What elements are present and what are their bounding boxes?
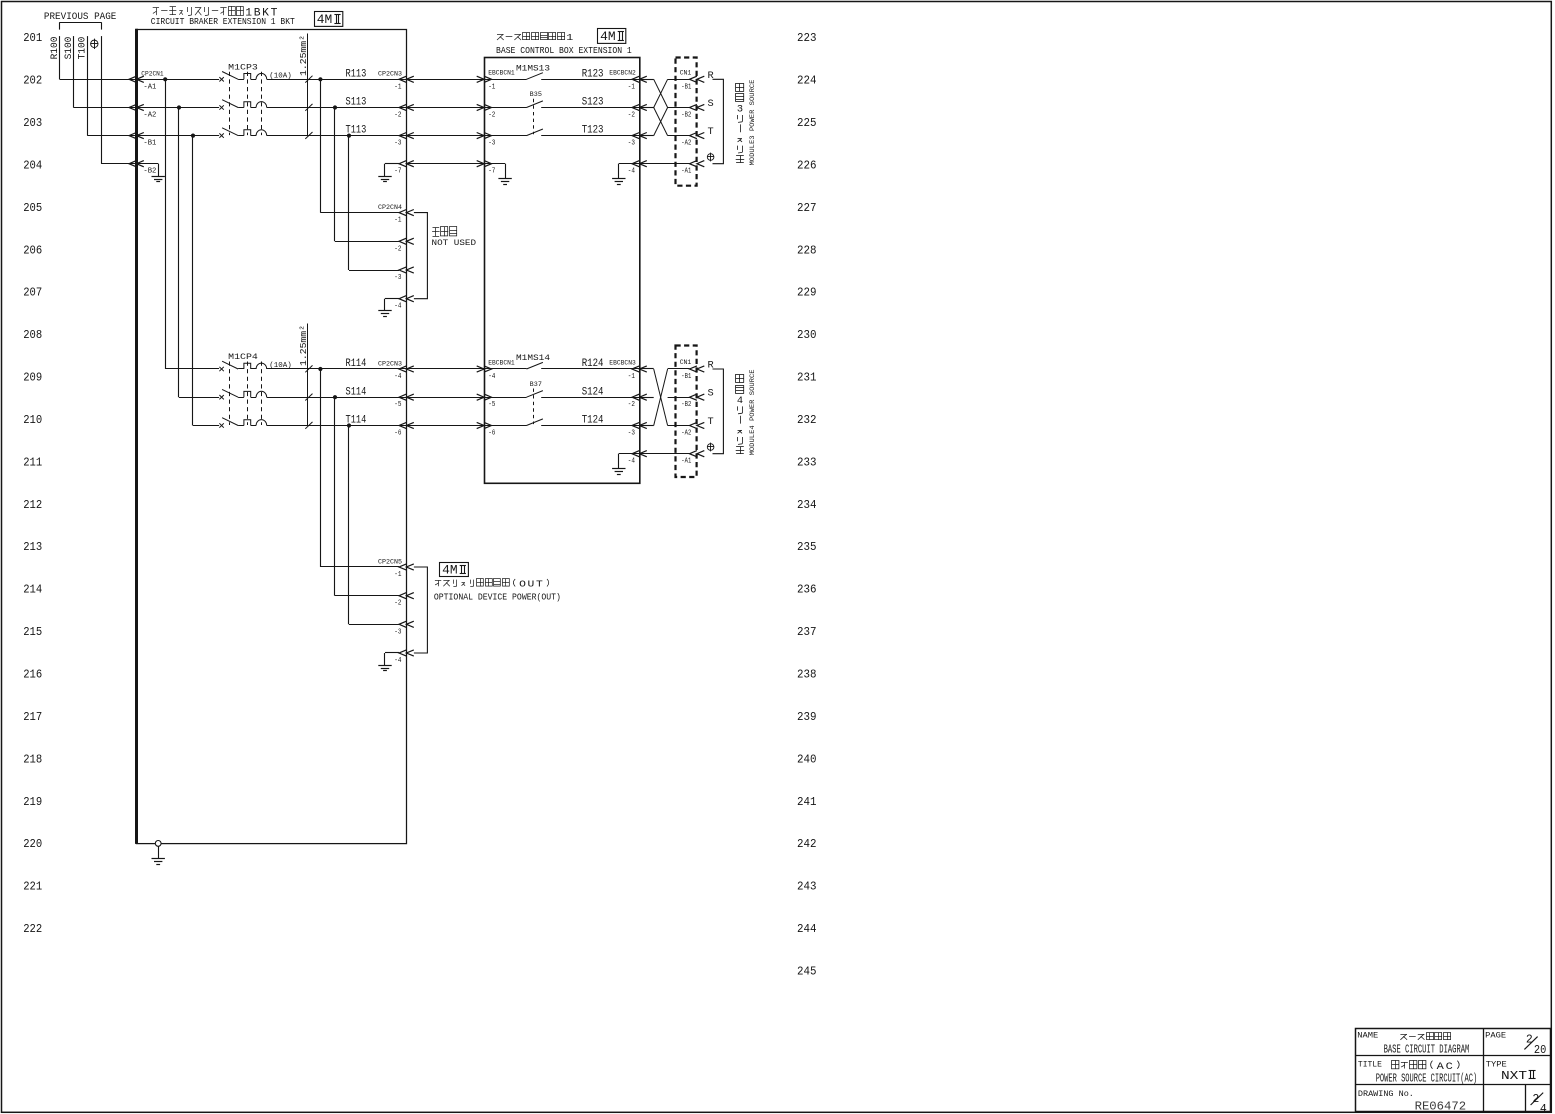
svg-text:MODULE3 POWER SOURCE: MODULE3 POWER SOURCE bbox=[749, 80, 757, 166]
svg-text:B37: B37 bbox=[530, 381, 542, 388]
svg-text:215: 215 bbox=[23, 626, 42, 639]
svg-text:-A2: -A2 bbox=[681, 430, 691, 438]
svg-text:S123: S123 bbox=[582, 97, 604, 109]
svg-text:S124: S124 bbox=[582, 386, 604, 398]
svg-text:NAME: NAME bbox=[1357, 1030, 1378, 1040]
svg-text:212: 212 bbox=[23, 499, 42, 512]
svg-text:227: 227 bbox=[797, 202, 817, 215]
svg-text:-2: -2 bbox=[628, 401, 635, 409]
svg-text:245: 245 bbox=[797, 965, 817, 978]
svg-text:202: 202 bbox=[23, 75, 42, 88]
svg-text:-3: -3 bbox=[394, 140, 401, 148]
svg-text:R114: R114 bbox=[346, 358, 367, 370]
svg-text:T: T bbox=[708, 127, 714, 138]
svg-text:1.25mm²: 1.25mm² bbox=[299, 325, 309, 366]
svg-text:-3: -3 bbox=[628, 430, 635, 438]
svg-text:M1MS13: M1MS13 bbox=[516, 63, 550, 73]
svg-text:4: 4 bbox=[1540, 1103, 1547, 1114]
svg-text:4: 4 bbox=[737, 395, 743, 407]
svg-text:S113: S113 bbox=[346, 97, 367, 109]
svg-text:-B1: -B1 bbox=[681, 373, 691, 381]
svg-text:T124: T124 bbox=[582, 415, 604, 427]
svg-text:R100: R100 bbox=[49, 37, 61, 60]
svg-text:-2: -2 bbox=[394, 600, 401, 608]
svg-text:-4: -4 bbox=[394, 373, 402, 381]
svg-text:-2: -2 bbox=[628, 112, 635, 120]
svg-text:213: 213 bbox=[23, 541, 42, 554]
svg-text:-6: -6 bbox=[394, 430, 401, 438]
svg-text:EBCBCN1: EBCBCN1 bbox=[488, 359, 515, 366]
svg-text:208: 208 bbox=[23, 329, 42, 342]
svg-text:S: S bbox=[708, 99, 714, 110]
svg-text:3: 3 bbox=[737, 104, 743, 116]
svg-text:-B2: -B2 bbox=[143, 168, 156, 176]
svg-text:TYPE: TYPE bbox=[1486, 1059, 1507, 1069]
svg-text:233: 233 bbox=[797, 456, 817, 469]
svg-text:M1CP3: M1CP3 bbox=[228, 62, 258, 72]
svg-text:226: 226 bbox=[797, 160, 817, 173]
svg-text:-A1: -A1 bbox=[681, 168, 691, 176]
svg-text:B35: B35 bbox=[530, 91, 542, 98]
svg-text:236: 236 bbox=[797, 584, 817, 597]
svg-text:-B1: -B1 bbox=[681, 83, 691, 91]
svg-text:234: 234 bbox=[797, 499, 817, 512]
svg-text:-A2: -A2 bbox=[681, 140, 691, 148]
svg-text:-7: -7 bbox=[488, 168, 495, 176]
svg-text:-1: -1 bbox=[394, 83, 402, 91]
svg-text:CIRCUIT BRAKER EXTENSION 1 BKT: CIRCUIT BRAKER EXTENSION 1 BKT bbox=[151, 16, 295, 27]
svg-text:-B2: -B2 bbox=[681, 401, 691, 409]
svg-text:210: 210 bbox=[23, 414, 42, 427]
svg-text:-4: -4 bbox=[394, 303, 402, 311]
svg-text:-1: -1 bbox=[394, 571, 402, 579]
svg-text:231: 231 bbox=[797, 372, 817, 385]
svg-text:-A1: -A1 bbox=[143, 83, 156, 91]
svg-text:S: S bbox=[708, 389, 714, 400]
svg-text:243: 243 bbox=[797, 881, 817, 894]
svg-text:-3: -3 bbox=[394, 274, 401, 282]
svg-text:219: 219 bbox=[23, 796, 42, 809]
svg-text:MODULE4 POWER SOURCE: MODULE4 POWER SOURCE bbox=[749, 369, 757, 455]
svg-text:CN1: CN1 bbox=[680, 70, 692, 77]
svg-text:-B1: -B1 bbox=[143, 140, 156, 148]
svg-text:-2: -2 bbox=[394, 112, 401, 120]
svg-text:225: 225 bbox=[797, 117, 817, 130]
svg-text:201: 201 bbox=[23, 32, 42, 45]
svg-text:238: 238 bbox=[797, 669, 817, 682]
svg-text:204: 204 bbox=[23, 160, 42, 173]
svg-text:EBCBCN1: EBCBCN1 bbox=[488, 70, 515, 77]
svg-text:CP2CN3: CP2CN3 bbox=[378, 360, 402, 367]
svg-text:PREVIOUS PAGE: PREVIOUS PAGE bbox=[44, 11, 117, 23]
svg-text:222: 222 bbox=[23, 923, 42, 936]
svg-text:T: T bbox=[708, 417, 714, 428]
svg-text:R124: R124 bbox=[582, 358, 604, 370]
svg-text:232: 232 bbox=[797, 414, 817, 427]
svg-text:-1: -1 bbox=[628, 83, 636, 91]
svg-text:CP2CN3: CP2CN3 bbox=[378, 71, 402, 78]
svg-text:211: 211 bbox=[23, 456, 42, 469]
svg-text:228: 228 bbox=[797, 244, 817, 257]
svg-text:-A1: -A1 bbox=[681, 458, 691, 466]
svg-text:-2: -2 bbox=[488, 112, 495, 120]
svg-text:-3: -3 bbox=[394, 628, 401, 636]
svg-text:-7: -7 bbox=[394, 168, 401, 176]
svg-text:205: 205 bbox=[23, 202, 42, 215]
svg-text:CP2CN4: CP2CN4 bbox=[378, 204, 402, 211]
svg-text:RE06472: RE06472 bbox=[1415, 1100, 1467, 1114]
svg-text:R: R bbox=[708, 71, 714, 82]
svg-text:PAGE: PAGE bbox=[1485, 1030, 1506, 1040]
svg-text:216: 216 bbox=[23, 669, 42, 682]
svg-text:NOT USED: NOT USED bbox=[432, 239, 477, 248]
svg-text:OPTIONAL DEVICE POWER(OUT): OPTIONAL DEVICE POWER(OUT) bbox=[434, 592, 561, 603]
svg-text:1.25mm²: 1.25mm² bbox=[299, 35, 309, 76]
svg-text:209: 209 bbox=[23, 372, 42, 385]
svg-text:NXT: NXT bbox=[1501, 1069, 1527, 1083]
svg-text:-6: -6 bbox=[488, 430, 495, 438]
svg-text:-1: -1 bbox=[488, 83, 496, 91]
svg-text:O: O bbox=[519, 579, 526, 590]
svg-text:4M: 4M bbox=[317, 13, 333, 27]
svg-text:CN1: CN1 bbox=[680, 359, 692, 366]
svg-text:S100: S100 bbox=[63, 37, 75, 60]
svg-text:241: 241 bbox=[797, 796, 817, 809]
svg-text:244: 244 bbox=[797, 923, 817, 936]
svg-text:207: 207 bbox=[23, 287, 42, 300]
svg-text:T: T bbox=[536, 579, 543, 590]
svg-text:206: 206 bbox=[23, 244, 42, 257]
svg-text:1: 1 bbox=[566, 33, 573, 43]
svg-text:-4: -4 bbox=[488, 373, 496, 381]
svg-text:CP2CN5: CP2CN5 bbox=[378, 558, 402, 565]
svg-text:-3: -3 bbox=[628, 140, 635, 148]
svg-text:BASE CIRCUIT DIAGRAM: BASE CIRCUIT DIAGRAM bbox=[1384, 1042, 1470, 1056]
svg-text:EBCBCN3: EBCBCN3 bbox=[609, 359, 636, 366]
svg-text:235: 235 bbox=[797, 541, 817, 554]
svg-text:20: 20 bbox=[1534, 1044, 1546, 1057]
svg-text:EBCBCN2: EBCBCN2 bbox=[609, 70, 636, 77]
svg-text:-5: -5 bbox=[394, 401, 401, 409]
svg-text:217: 217 bbox=[23, 711, 42, 724]
svg-text:220: 220 bbox=[23, 838, 42, 851]
svg-text:230: 230 bbox=[797, 329, 817, 342]
svg-text:4M: 4M bbox=[600, 30, 616, 44]
svg-text:CP2CN1: CP2CN1 bbox=[141, 70, 163, 77]
svg-text:S114: S114 bbox=[346, 386, 367, 398]
svg-text:214: 214 bbox=[23, 584, 42, 597]
svg-text:-3: -3 bbox=[488, 140, 495, 148]
svg-text:DRAWING No.: DRAWING No. bbox=[1358, 1089, 1414, 1099]
svg-text:240: 240 bbox=[797, 753, 817, 766]
svg-text:-4: -4 bbox=[628, 168, 636, 176]
svg-text:M1CP4: M1CP4 bbox=[228, 352, 258, 362]
svg-text:-2: -2 bbox=[394, 245, 401, 253]
svg-text:-4: -4 bbox=[628, 458, 636, 466]
svg-text:223: 223 bbox=[797, 32, 817, 45]
svg-text:4M: 4M bbox=[442, 564, 458, 578]
svg-text:-1: -1 bbox=[628, 373, 636, 381]
svg-text:TITLE: TITLE bbox=[1358, 1059, 1382, 1069]
svg-text:242: 242 bbox=[797, 838, 817, 851]
svg-text:-A2: -A2 bbox=[143, 112, 156, 120]
svg-text:-4: -4 bbox=[394, 657, 402, 665]
svg-text:M1MS14: M1MS14 bbox=[516, 353, 550, 363]
svg-text:221: 221 bbox=[23, 881, 42, 894]
svg-text:237: 237 bbox=[797, 626, 817, 639]
svg-text:R113: R113 bbox=[346, 68, 367, 80]
svg-text:203: 203 bbox=[23, 117, 42, 130]
svg-text:-5: -5 bbox=[488, 401, 495, 409]
svg-text:229: 229 bbox=[797, 287, 817, 300]
svg-text:218: 218 bbox=[23, 753, 42, 766]
svg-text:-B2: -B2 bbox=[681, 112, 691, 120]
svg-text:224: 224 bbox=[797, 75, 817, 88]
svg-text:-1: -1 bbox=[394, 217, 402, 225]
svg-text:239: 239 bbox=[797, 711, 817, 724]
svg-text:POWER SOURCE CIRCUIT(AC): POWER SOURCE CIRCUIT(AC) bbox=[1376, 1072, 1478, 1086]
svg-text:R: R bbox=[708, 361, 714, 372]
svg-text:BASE CONTROL BOX EXTENSION 1: BASE CONTROL BOX EXTENSION 1 bbox=[496, 45, 632, 56]
svg-text:T100: T100 bbox=[77, 37, 89, 60]
svg-text:U: U bbox=[528, 579, 535, 590]
svg-text:T123: T123 bbox=[582, 125, 604, 137]
svg-text:R123: R123 bbox=[582, 68, 604, 80]
